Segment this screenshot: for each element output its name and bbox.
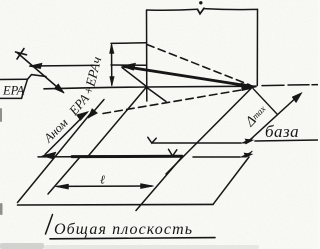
thick ray left arrowhead	[122, 63, 136, 70]
basa underline	[255, 140, 318, 141]
rectangle right edge	[256, 9, 258, 85]
bottom plane near edge	[18, 203, 214, 206]
long left slant of planes (B)	[18, 111, 94, 203]
thin ray under thick ray	[122, 68, 147, 87]
L extension line 2	[136, 157, 182, 211]
edge smudges	[0, 108, 259, 249]
near edge thin left part	[38, 156, 72, 158]
svg-text:EPA: EPA	[2, 84, 25, 98]
X arrowhead at DG1 top	[16, 49, 27, 60]
common plane underline	[50, 238, 215, 239]
Amax arrowhead	[292, 93, 302, 103]
leader slash of common plane label	[46, 215, 53, 235]
upper leader line to basa	[152, 142, 241, 144]
EPA flag bottom edge	[0, 97, 22, 99]
rectangle top edge left part	[147, 8, 198, 11]
EPA flag leader bend	[28, 75, 47, 80]
EPA flag right slant	[22, 79, 28, 98]
half-arrow flag upper leader	[241, 138, 253, 144]
rectangle notch check mark	[198, 8, 205, 14]
L dim left arrowhead	[56, 184, 69, 189]
svg-text:база: база	[265, 122, 299, 141]
right diagonal Amax direction	[246, 95, 299, 144]
svg-text:ℓ: ℓ	[100, 173, 105, 187]
right slant A1 from convergence point	[166, 88, 252, 174]
svg-text:Общая плоскость: Общая плоскость	[54, 221, 193, 238]
upper dashed ray	[147, 45, 250, 86]
Anom upper arrowhead	[77, 112, 89, 121]
thick ray right arrowhead	[241, 83, 256, 91]
datum plane right slant	[253, 89, 277, 115]
horizontal reference line y66 left part	[30, 64, 93, 67]
Anom lower arrowhead	[42, 152, 56, 159]
Anom dimension line	[45, 113, 87, 155]
vertical dimension line EPAch	[111, 45, 113, 85]
EPA flag top edge	[0, 78, 28, 80]
far edge dash-dot continuation to right	[262, 85, 318, 86]
horizontal reference line y43	[111, 42, 147, 45]
rectangle top edge right part	[204, 8, 258, 11]
DG2 arrowhead	[88, 109, 98, 119]
DG1 bottom arrowhead	[54, 84, 64, 93]
vertical dim arrow up	[110, 44, 114, 54]
horizontal reference line y66 right part	[111, 64, 147, 66]
DG2 diagonal continuation	[89, 100, 105, 118]
rectangle notch dot	[199, 1, 202, 4]
short stub right of corner	[148, 88, 167, 102]
vertical dim arrow down	[110, 77, 114, 87]
lower dashed ray	[103, 89, 250, 114]
v tick on thick edge	[169, 149, 177, 156]
near edge thin right part	[193, 156, 240, 158]
upper plane left slant (A)	[87, 87, 147, 158]
thick ray double arrow	[124, 67, 252, 87]
rectangle left edge	[146, 10, 148, 101]
L dim right arrowhead	[141, 184, 154, 189]
v tick at left end of upper leader	[148, 137, 156, 143]
near edge thick part	[72, 155, 182, 158]
half-arrow flag lower leader	[240, 151, 252, 157]
far horizontal edge line (datum plane far edge)	[44, 86, 256, 89]
arrowhead left end of y66 line	[29, 63, 42, 68]
L dimension line	[57, 185, 152, 187]
left leader diagonal DG1	[17, 53, 64, 93]
L extension line 1	[48, 157, 80, 194]
bottom plane right slant	[213, 157, 249, 204]
